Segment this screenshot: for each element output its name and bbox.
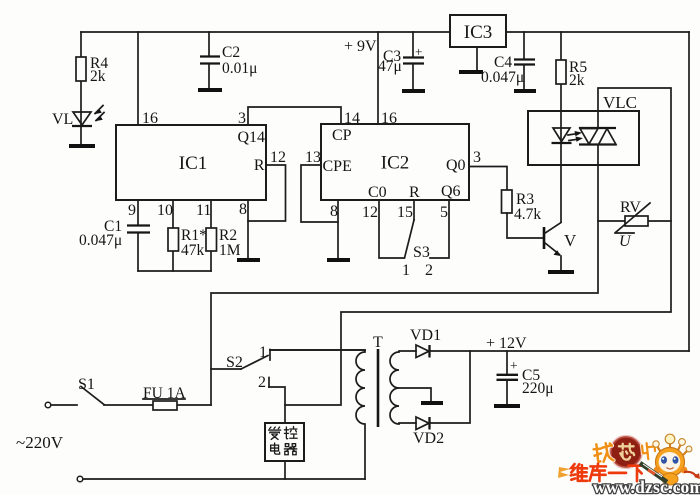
wire IC2 pin15 R bbox=[413, 200, 415, 220]
svg-text:Q14: Q14 bbox=[237, 129, 265, 146]
svg-text:47μ: 47μ bbox=[378, 58, 402, 75]
wire load box to bottom rail bbox=[284, 461, 286, 479]
regulator IC3 bbox=[450, 15, 506, 47]
svg-text:www.dzsc.com: www.dzsc.com bbox=[593, 477, 700, 495]
switch S2 pivot wire bbox=[211, 368, 241, 370]
svg-text:U: U bbox=[619, 233, 632, 250]
wire S2 contact2 down to load box bbox=[269, 387, 285, 423]
svg-text:220μ: 220μ bbox=[522, 380, 554, 397]
load box (controlled appliance) bbox=[265, 423, 304, 461]
fuse FU bbox=[153, 401, 177, 410]
svg-text:CPE: CPE bbox=[323, 158, 352, 175]
capacitor C1 on pin9 bbox=[137, 200, 139, 225]
switch S2 blade bbox=[241, 356, 268, 370]
capacitor C2 bbox=[208, 32, 210, 56]
resistor R2 on pin11 bbox=[210, 200, 212, 271]
diode VD1 bbox=[416, 345, 429, 358]
svg-text:V: V bbox=[564, 231, 577, 250]
capacitor C5 bbox=[506, 351, 508, 374]
wire IC1 R pin12 to ground bbox=[248, 165, 286, 221]
svg-text:+ 9V: + 9V bbox=[344, 38, 377, 55]
node S2 contact 1 bbox=[269, 350, 271, 361]
wire +12V line bbox=[429, 350, 689, 352]
optocoupler VLC box bbox=[528, 111, 639, 165]
wire triac top loop to RV right bbox=[285, 88, 671, 405]
opto LED bbox=[560, 128, 562, 222]
svg-text:~220V: ~220V bbox=[16, 433, 64, 452]
capacitor C3 bbox=[412, 32, 414, 57]
wire IC1 pin16 drop from rail bbox=[137, 32, 139, 125]
wire S1 to fuse to mains node bbox=[104, 404, 211, 406]
svg-text:12: 12 bbox=[362, 204, 378, 221]
wire IC1 Q14 pin3 to IC2 CP pin14 bbox=[248, 107, 341, 125]
ground (C3) bbox=[402, 89, 425, 93]
wire IC2 pin12 C0 to S3 contact 1 bbox=[379, 200, 404, 258]
wire center tap bbox=[399, 388, 431, 401]
svg-text:15: 15 bbox=[397, 204, 413, 221]
transformer core bbox=[377, 349, 380, 427]
wire triac bottom to mains node bbox=[211, 145, 598, 406]
node S2 contact 2 bbox=[268, 378, 270, 388]
svg-text:5: 5 bbox=[440, 204, 448, 221]
svg-text:3: 3 bbox=[473, 149, 481, 166]
ground (C5) bbox=[494, 404, 520, 408]
ground (VL) bbox=[69, 144, 95, 148]
svg-text:IC3: IC3 bbox=[464, 22, 493, 43]
LED VL bbox=[80, 112, 82, 144]
ground (center tap) bbox=[421, 401, 443, 405]
wire S2 contact1 to transformer primary bbox=[270, 349, 365, 351]
varistor RV bbox=[598, 220, 671, 222]
svg-text:+: + bbox=[510, 358, 518, 373]
svg-text:S3: S3 bbox=[413, 244, 430, 261]
wire IC1 pin8 bbox=[247, 200, 249, 258]
svg-text:0.047μ: 0.047μ bbox=[79, 232, 122, 249]
svg-text:Q6: Q6 bbox=[441, 183, 461, 200]
svg-text:R: R bbox=[254, 157, 265, 174]
svg-text:47k: 47k bbox=[181, 242, 205, 259]
IC1 bbox=[116, 125, 266, 200]
transistor V bbox=[543, 227, 546, 249]
svg-text:1: 1 bbox=[402, 262, 410, 279]
svg-text:T: T bbox=[373, 334, 383, 351]
wire VD2 to +12V junction bbox=[429, 351, 470, 423]
svg-text:1M: 1M bbox=[219, 242, 241, 259]
resistor R4 bbox=[80, 32, 82, 112]
svg-text:C0: C0 bbox=[368, 184, 387, 201]
mains terminal bottom bbox=[77, 476, 83, 482]
svg-text:IC1: IC1 bbox=[179, 153, 208, 174]
svg-text:VD2: VD2 bbox=[413, 430, 444, 447]
wire IC2 pin8 bbox=[337, 200, 339, 258]
svg-text:8: 8 bbox=[330, 203, 338, 220]
wire IC2 pin5 Q6 to S3 contact 2 bbox=[430, 200, 449, 258]
svg-text:12: 12 bbox=[270, 149, 286, 166]
switch S3 blade bbox=[405, 220, 415, 258]
svg-text:9: 9 bbox=[128, 202, 136, 219]
resistor R3 bbox=[502, 190, 513, 213]
svg-text:Q0: Q0 bbox=[446, 157, 466, 174]
svg-text:R: R bbox=[409, 184, 420, 201]
svg-text:CP: CP bbox=[332, 127, 352, 144]
svg-text:0.047μ: 0.047μ bbox=[481, 69, 524, 86]
svg-text:2: 2 bbox=[258, 374, 266, 391]
wire IC2 pin16 drop from rail bbox=[377, 32, 379, 124]
wire S1 left bbox=[51, 404, 77, 406]
svg-text:2k: 2k bbox=[90, 68, 106, 85]
svg-text:VL: VL bbox=[52, 111, 73, 128]
ground (IC1 pin8) bbox=[237, 258, 260, 262]
svg-text:0.01μ: 0.01μ bbox=[222, 60, 257, 77]
svg-text:3: 3 bbox=[238, 110, 246, 127]
wire right edge drop to +12V bbox=[688, 32, 690, 351]
transformer T primary bbox=[270, 350, 365, 479]
wire IC3 ground stem bbox=[476, 47, 478, 70]
wire bottom rail bbox=[83, 478, 365, 480]
diode VD2 bbox=[416, 417, 429, 430]
wire IC2 Q0 pin3 to R3 bbox=[469, 167, 507, 191]
opto light arrows bbox=[568, 134, 576, 135]
svg-text:RV: RV bbox=[620, 199, 641, 216]
svg-text:1: 1 bbox=[259, 344, 267, 361]
wire RC bottom bus bbox=[138, 270, 211, 272]
watermark logo bbox=[558, 434, 700, 495]
ground (C4) bbox=[514, 89, 536, 93]
transformer T secondary bbox=[390, 351, 416, 424]
ground (IC3) bbox=[459, 70, 483, 74]
wire IC2 CPE pin13 to pin8 ground bbox=[301, 165, 338, 222]
wire +9V top rail left bbox=[81, 31, 449, 33]
ground (IC2 pin8) bbox=[327, 258, 350, 262]
svg-text:2: 2 bbox=[425, 262, 433, 279]
svg-text:11: 11 bbox=[196, 202, 211, 219]
svg-text:10: 10 bbox=[157, 202, 173, 219]
svg-text:+: + bbox=[415, 44, 422, 59]
resistor R1 on pin10 bbox=[172, 200, 174, 271]
resistor R5 bbox=[560, 32, 562, 128]
svg-text:S2: S2 bbox=[226, 354, 243, 371]
switch S1 blade bbox=[81, 387, 104, 405]
switch S1 terminal bbox=[45, 402, 51, 408]
opto triac bbox=[579, 127, 616, 129]
capacitor C4 bbox=[523, 32, 525, 59]
svg-text:IC2: IC2 bbox=[381, 153, 410, 174]
svg-text:S1: S1 bbox=[78, 376, 95, 393]
ground (C2) bbox=[198, 88, 222, 92]
svg-text:4.7k: 4.7k bbox=[514, 206, 541, 223]
svg-text:VD1: VD1 bbox=[410, 327, 441, 344]
ground (transistor emitter) bbox=[548, 270, 574, 274]
wire top rail right of IC3 bbox=[506, 31, 689, 33]
svg-text:C2: C2 bbox=[222, 44, 240, 61]
IC2 bbox=[321, 124, 469, 200]
svg-text:VLC: VLC bbox=[603, 93, 637, 112]
svg-text:+ 12V: + 12V bbox=[486, 335, 527, 352]
svg-text:13: 13 bbox=[305, 149, 321, 166]
svg-text:2k: 2k bbox=[569, 72, 585, 89]
svg-text:8: 8 bbox=[239, 201, 247, 218]
